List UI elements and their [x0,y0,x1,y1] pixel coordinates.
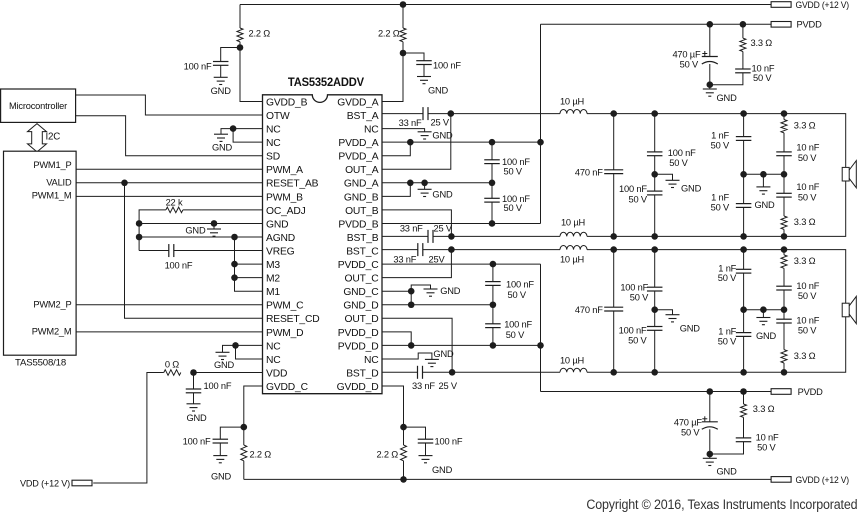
connector tag VDD (+12 V) [72,480,92,486]
wire OUT_C [382,250,451,278]
svg-text:GVDD_D: GVDD_D [337,382,379,393]
svg-text:470 nF: 470 nF [575,305,603,315]
svg-text:GND: GND [756,331,777,341]
capacitor 1 nF 50 V (A/B upper) [736,137,752,141]
capacitor 100 nF 50 V (C/D upper) [647,287,663,291]
wire [709,429,711,454]
svg-text:50 V: 50 V [798,193,817,203]
resistor 3.3 Ohm (A/B lower) [781,216,787,229]
wire [783,290,785,310]
svg-text:NC: NC [266,125,281,136]
svg-text:GND: GND [266,219,288,230]
junction GND symbol [211,220,218,227]
junction midline [740,171,747,178]
junction decoupling mid [489,180,496,187]
wire [783,114,785,120]
junction GND_D [408,301,415,308]
wire [193,393,195,404]
junction midline ground [760,306,767,313]
wire GVDD (+12V) bottom rail [244,478,771,480]
ground (A/B 100nF mid) [666,180,680,187]
svg-text:2.2 Ω: 2.2 Ω [376,450,398,460]
svg-text:1 nF: 1 nF [718,263,736,273]
svg-text:10 µH: 10 µH [560,356,584,366]
svg-text:OUT_B: OUT_B [345,206,379,217]
svg-text:25 V: 25 V [434,224,453,234]
capacitor 100 nF 50 V (A/B upper) [647,152,663,156]
junction [400,50,407,57]
capacitor 33 nF 25 V (BST_A) [423,107,428,120]
wire GVDD_D [382,386,404,427]
svg-text:1 nF: 1 nF [711,131,729,141]
wire PVDD vertical upper segment [540,24,542,223]
svg-text:Copyright © 2016, Texas Instru: Copyright © 2016, Texas Instruments Inco… [586,497,857,512]
inductor 10 uH (L4) [560,368,587,372]
svg-text:100 nF: 100 nF [184,61,212,71]
svg-text:SD: SD [266,152,280,163]
ground (PVDD bottom) [703,458,717,465]
svg-text:50 V: 50 V [504,203,523,213]
wire BST_B node to inductor [433,235,560,237]
svg-text:VALID: VALID [46,178,72,188]
svg-text:50 V: 50 V [757,443,776,453]
capacitor 33 nF 25 V (BST_B) [428,230,433,243]
wire Microcontroller to SD [76,116,263,156]
wire [403,461,405,480]
wire [243,427,245,445]
capacitor 470 nF (channel C/D) [604,307,623,311]
svg-text:GND: GND [717,467,738,477]
capacitor 33 nF 25 V (BST_D) [418,366,423,379]
svg-text:OTW: OTW [266,111,290,122]
svg-text:PVDD: PVDD [798,387,824,397]
wire [783,310,785,320]
svg-text:GND: GND [680,324,701,334]
ground (GND_A) [418,189,432,196]
svg-text:10 µH: 10 µH [560,255,584,265]
junction GND_C [408,288,415,295]
junction NC [230,125,237,132]
svg-text:50 V: 50 V [718,273,737,283]
svg-text:3.3 Ω: 3.3 Ω [794,256,816,266]
wire [243,461,245,480]
svg-text:TAS5508/18: TAS5508/18 [15,358,66,368]
svg-text:GND: GND [211,472,232,482]
junction BST_C/OUT_C [448,246,455,253]
I2C bidirectional arrow [28,124,47,152]
capacitor 33 nF 25 V (BST_C) [418,243,423,256]
wire OUT_D [382,318,452,372]
svg-text:GVDD (+12 V): GVDD (+12 V) [796,475,850,485]
polarized capacitor 470 uF 50 V (top) [702,57,718,65]
wire [193,373,195,390]
wire [654,156,656,175]
ground (GVDD_B cap) [214,77,228,84]
svg-text:VDD (+12 V): VDD (+12 V) [20,478,70,488]
wire NC pin 19 [236,344,263,346]
wire OUT_A [382,114,451,170]
wire VREG left [139,250,169,252]
svg-text:10 nF: 10 nF [796,281,819,291]
wire [655,174,673,180]
capacitor 100 nF 50 V (C/D lower) [647,327,663,331]
svg-text:3.3 Ω: 3.3 Ω [794,217,816,227]
svg-text:PWM2_M: PWM2_M [32,326,72,336]
svg-text:25 V: 25 V [439,381,458,391]
wire GND_C to GND_D [410,291,412,305]
wire [220,427,244,439]
svg-text:PVDD_C: PVDD_C [338,260,379,271]
wire NC pin 4 [233,129,262,143]
capacitor 100 nF (GVDD_D) [418,439,434,443]
svg-text:100 nF: 100 nF [204,381,232,391]
connector tag GVDD (+12V) bottom [771,477,791,483]
ground (VDD cap) [187,404,201,411]
svg-text:50 V: 50 V [508,290,527,300]
junction GND_A [407,180,414,187]
svg-text:GND: GND [432,465,453,475]
wire midline C/D [744,309,784,311]
capacitor 100 nF 50 V (PVDD_A-GND_A) [484,160,500,164]
wire OUT_C filtered rail [587,250,846,304]
wire AGND to M1 [235,237,263,291]
svg-text:GND: GND [433,349,454,359]
resistor 0 Ohm (VDD) [164,370,181,376]
wire [404,427,426,439]
svg-text:GND: GND [754,200,775,210]
wire PWM1_M to PWM_B [76,195,262,197]
wire [613,250,615,308]
wire [742,24,744,38]
polarized capacitor 470 uF 50 V (bottom) [702,422,718,430]
junction M3 [231,261,238,268]
inductor 10 uH (L1) [560,110,587,114]
ground (GND pin) [207,229,221,236]
svg-text:100 nF: 100 nF [183,437,211,447]
junction top rail [651,110,658,117]
svg-text:OUT_D: OUT_D [345,314,379,325]
wire [783,250,785,255]
capacitor 100 nF 50 V (GND_D-PVDD_D) [485,324,501,328]
wire [783,229,785,236]
resistor 3.3 Ohm (PVDD top snubber) [740,38,746,51]
connector tag PVDD bottom [771,389,791,395]
wire [654,250,656,288]
wire [403,53,424,61]
wire [743,140,745,174]
svg-text:GND: GND [440,286,461,296]
wire [742,52,744,70]
resistor 2.2 Ohm (GVDD_D) [401,445,407,461]
junction PVDD_D tap [537,342,544,349]
capacitor 1 nF 50 V (C/D lower) [736,333,752,337]
svg-text:PVDD_D: PVDD_D [338,341,379,352]
junction bottom rail [740,369,747,376]
wire [491,183,493,199]
ground (A/B midline) [756,187,770,194]
wire PWM2_M to PWM_D [76,331,262,333]
junction [707,81,714,88]
wire [654,330,656,372]
resistor 2.2 Ohm (GVDD_B) [237,28,243,42]
junction decoupling mid [490,301,497,308]
svg-text:PWM2_P: PWM2_P [33,299,71,309]
svg-text:33 nF: 33 nF [399,118,422,128]
wire [743,207,745,236]
junction [707,451,714,458]
junction PVDD_D [408,342,415,349]
junction decoupling bottom [489,220,496,227]
wire M2 pin [235,277,263,279]
ground (GVDD_C cap) [213,456,227,463]
svg-text:100 nF: 100 nF [668,148,696,158]
wire [743,392,745,405]
speaker (channel C/D) [842,296,856,323]
junction GND row [136,220,143,227]
svg-text:50 V: 50 V [798,326,817,336]
svg-text:2.2 Ω: 2.2 Ω [378,28,400,38]
ground (PVDD top) [703,89,717,96]
wire PVDD_A row [382,141,541,143]
wire [655,310,673,315]
svg-text:PVDD_B: PVDD_B [338,219,378,230]
svg-text:10 nF: 10 nF [796,143,819,153]
svg-text:GND_B: GND_B [344,192,379,203]
wire [424,183,426,190]
ground (GND_C) [424,289,438,296]
svg-text:2.2 Ω: 2.2 Ω [249,28,271,38]
svg-text:M3: M3 [266,260,280,271]
wire [492,328,494,346]
svg-text:50 V: 50 V [711,202,730,212]
svg-text:TAS5352ADDV: TAS5352ADDV [288,77,364,89]
svg-text:10 nF: 10 nF [752,64,775,74]
resistor 22 k (OC_ADJ) [166,207,183,213]
wire [710,73,743,85]
junction decoupling top [489,139,496,146]
svg-text:10 nF: 10 nF [796,315,819,325]
capacitor 100 nF (GVDD_B) [213,62,229,66]
wire [743,250,745,270]
svg-text:100 nF: 100 nF [504,320,532,330]
capacitor 100 nF (VDD) [186,389,202,393]
wire [709,85,711,89]
junction bottom rail [781,369,788,376]
wire OUT_D filtered rail [587,317,846,373]
resistor 3.3 Ohm (PVDD bottom snubber) [741,404,747,417]
capacitor 10 nF 50 V (PVDD top snubber) [735,69,751,73]
junction top rail [610,246,617,253]
svg-text:100 nF: 100 nF [619,325,647,335]
ground (C/D midline) [756,318,770,325]
svg-text:3.3 Ω: 3.3 Ω [751,38,773,48]
junction GVDD_C [241,424,248,431]
svg-text:GVDD (+12 V): GVDD (+12 V) [796,0,850,10]
svg-text:3.3 Ω: 3.3 Ω [794,121,816,131]
capacitor 100 nF (GVDD_C) [213,439,229,443]
svg-text:M2: M2 [266,274,280,285]
wire [783,323,785,350]
svg-text:22 k: 22 k [166,198,183,208]
speaker (channel A/B) [842,161,856,188]
svg-text:RESET_AB: RESET_AB [266,179,319,190]
junction bottom rail [610,369,617,376]
svg-text:OUT_A: OUT_A [345,165,379,176]
wire to GVDD_B pin [240,42,263,102]
svg-text:GND: GND [214,360,235,370]
junction BST_D/OUT_D [449,369,456,376]
wire PVDD_D second pin [382,332,411,346]
junction [237,44,244,51]
wire BST_B [382,235,428,237]
wire OUT_B filtered rail [587,181,846,237]
capacitor 100 nF 50 V (PVDD_C-GND_D) [485,282,501,286]
junction M2 [231,274,238,281]
junction [707,21,714,28]
junction bottom rail [610,233,617,240]
svg-text:BST_C: BST_C [346,246,379,257]
svg-text:50 V: 50 V [504,166,523,176]
junction top rail [781,110,788,117]
wire [239,5,241,29]
wire PVDD vertical lower segment [540,264,542,391]
wire BST_A [382,113,423,115]
ground (NC bottom left) [216,352,230,359]
wire OC_ADJ [183,209,263,211]
svg-text:GVDD_B: GVDD_B [266,97,308,108]
junction top rail [400,1,407,8]
svg-text:33 nF: 33 nF [412,381,435,391]
junction ground symbol [421,180,428,187]
junction PVDD_A tap [537,139,544,146]
wire BST_C node to inductor [423,249,560,251]
svg-text:100 nF: 100 nF [620,282,648,292]
wire [403,427,405,445]
wire GND_B [382,183,410,197]
wire GND_C ground step [411,285,430,291]
wire PVDD top rail [541,23,772,25]
wire [402,5,404,29]
op-amp U1 TAS5352ADDV body [263,95,383,394]
wire [762,174,764,187]
wire [491,202,493,223]
svg-text:BST_B: BST_B [347,233,379,244]
wire VDD pin [194,372,263,374]
svg-text:PVDD_A: PVDD_A [338,152,378,163]
wire [220,65,222,77]
svg-text:PWM_D: PWM_D [266,328,303,339]
junction top rail [610,110,617,117]
svg-text:100 nF: 100 nF [619,184,647,194]
wire OUT_A filtered rail [587,114,846,168]
junction [740,388,747,395]
capacitor 10 nF 50 V (PVDD bottom snubber) [736,438,752,442]
svg-text:50 V: 50 V [506,330,525,340]
wire PWM2_P to PWM_C [76,304,262,306]
junction [740,21,747,28]
svg-text:GND_D: GND_D [343,301,378,312]
wire VALID to RESET_CD [125,183,263,318]
svg-text:470 µF: 470 µF [672,50,701,60]
svg-text:470 nF: 470 nF [575,168,603,178]
wire [783,268,785,286]
wire [709,64,711,85]
svg-text:50 V: 50 V [711,140,730,150]
ground (NC top left) [214,134,228,141]
junction bottom rail [400,476,407,483]
wire GVDD (+12V) top rail [240,4,771,6]
svg-text:33 nF: 33 nF [400,224,423,234]
capacitor 100 nF (VREG) [169,244,174,257]
block TAS5508/18 [4,151,77,355]
resistor 3.3 Ohm (A/B upper) [781,120,787,133]
wire [492,305,494,324]
wire [783,197,785,216]
svg-text:BST_D: BST_D [346,368,378,379]
capacitor 100 nF 50 V (GND_A-PVDD_B) [484,198,500,202]
junction AGND row [136,234,143,241]
svg-text:NC: NC [364,125,379,136]
svg-text:OUT_C: OUT_C [345,274,380,285]
wire PVDD_D row [382,344,541,346]
junction 100nF midpoint [651,171,658,178]
wire [221,48,240,62]
capacitor 100 nF (GVDD_A) [416,61,432,65]
wire [425,443,427,456]
wire BST_D [382,371,418,373]
svg-text:OC_ADJ: OC_ADJ [266,206,306,217]
junction bottom rail [740,233,747,240]
svg-text:50 V: 50 V [680,60,699,70]
svg-text:10 nF: 10 nF [796,182,819,192]
capacitor 1 nF 50 V (A/B lower) [736,204,752,208]
capacitor 10 nF 50 V (A/B lower) [776,193,792,197]
svg-text:50 V: 50 V [718,336,737,346]
junction zobel mid [781,171,788,178]
wire [709,454,711,458]
svg-text:10 µH: 10 µH [561,218,585,228]
svg-text:1 nF: 1 nF [718,327,736,337]
svg-text:GND: GND [681,184,702,194]
wire OUT_B [382,210,451,237]
junction bottom rail [781,233,788,240]
wire [423,65,425,77]
svg-text:M1: M1 [266,287,280,298]
svg-text:GVDD_A: GVDD_A [337,97,379,108]
ground (NC right bottom) [425,359,439,366]
svg-text:25 V: 25 V [431,118,450,128]
junction BST_A/OUT_A [448,110,455,117]
wire [783,174,785,193]
wire BST_D node to inductor [423,371,561,373]
svg-text:PWM_B: PWM_B [266,192,303,203]
svg-text:GND: GND [428,86,449,96]
wire NC pin to ground [382,129,425,132]
block Microcontroller [1,89,76,122]
svg-text:3.3 Ω: 3.3 Ω [753,404,775,414]
resistor 3.3 Ohm (C/D lower) [781,350,787,363]
wire [491,142,493,160]
wire [492,285,494,304]
wire [783,156,785,175]
wire [654,195,656,237]
junction NC [232,342,239,349]
wire PWM1_P to PWM_A [76,168,262,170]
wire GVDD_C [244,386,263,427]
svg-text:Microcontroller: Microcontroller [9,101,67,111]
svg-text:PWM1_P: PWM1_P [33,160,71,170]
svg-text:GND: GND [211,86,232,96]
